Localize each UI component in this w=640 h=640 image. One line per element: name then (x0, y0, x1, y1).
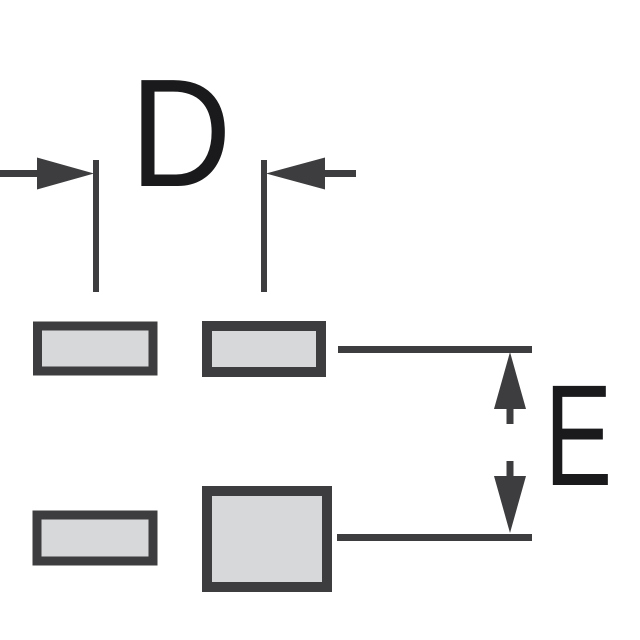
leader line from pad P2 (338, 346, 532, 353)
dimension D left arrow wire (0, 170, 40, 177)
dimension E down arrow stub (507, 461, 514, 477)
dimension E up arrow stub (507, 408, 514, 424)
svg-text:D: D (130, 47, 232, 219)
pad P4 bottom-right large (207, 491, 327, 587)
extension line from pad P1 center (93, 160, 99, 292)
leader line from pad P4 (337, 534, 532, 541)
svg-text:E: E (545, 356, 613, 517)
pad P3 bottom-left (37, 515, 153, 561)
pad P1 top-left (38, 326, 154, 371)
dimension E up arrowhead (494, 352, 526, 409)
pad P2 top-right (207, 326, 321, 372)
dimension E down arrowhead (494, 476, 526, 533)
extension line from pad P2 center (261, 160, 267, 292)
dimension D left arrowhead (37, 158, 94, 190)
dimension D right arrowhead (266, 158, 325, 190)
dimension D right arrow wire (325, 170, 356, 177)
